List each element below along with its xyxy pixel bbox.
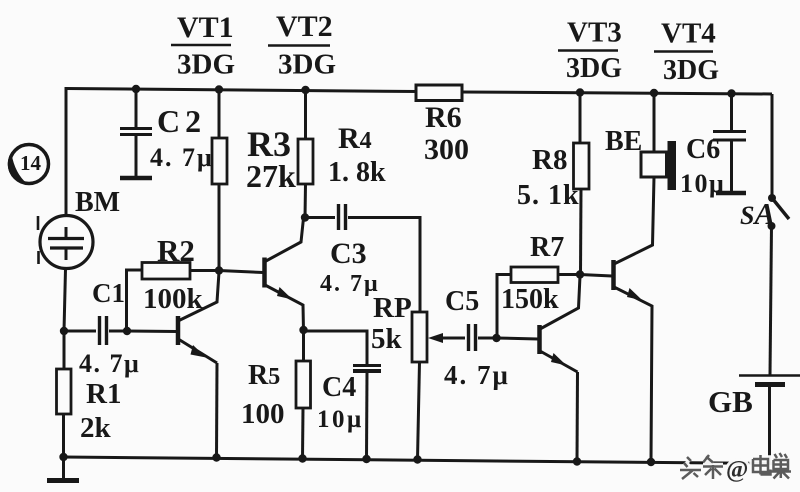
svg-text:4. 7μ: 4. 7μ	[150, 143, 214, 172]
svg-text:R7: R7	[530, 232, 564, 263]
junction RP bottom on ground rail	[413, 455, 421, 463]
resistor R8	[574, 93, 590, 275]
svg-text:C3: C3	[330, 237, 367, 270]
svg-text:VT4: VT4	[661, 18, 716, 50]
junction R8 top on power rail	[576, 88, 584, 96]
junction VT3 emitter on ground rail	[573, 457, 581, 465]
switch SA upper contact	[768, 194, 776, 202]
svg-text:3DG: 3DG	[566, 53, 622, 84]
svg-text:@: @	[726, 457, 748, 483]
svg-text:VT2: VT2	[276, 10, 333, 43]
svg-text:BE: BE	[605, 126, 642, 157]
wire VT1 collector node to VT2 base	[219, 271, 263, 273]
svg-text:C1: C1	[92, 278, 125, 308]
junction VT4 emitter on ground rail	[647, 458, 655, 466]
svg-text:R1: R1	[86, 378, 121, 410]
junction C2 top on power rail	[132, 85, 140, 93]
node VT2 collector / R4 / C3	[301, 213, 309, 221]
transistor VT1	[178, 272, 219, 458]
node R7 / R8 / VT3 collector / VT4 base	[576, 270, 584, 278]
capacitor C3	[305, 204, 420, 312]
junction R4 top on power rail	[301, 86, 309, 94]
earphone BE	[641, 93, 676, 190]
switch SA lower contact	[768, 222, 776, 230]
capacitor C6	[713, 94, 746, 194]
svg-text:3DG: 3DG	[663, 55, 719, 86]
svg-text:VT1: VT1	[177, 11, 234, 44]
junction C6 top on power rail	[727, 89, 735, 97]
resistor R2	[127, 263, 220, 332]
watermark toutiao at dianchao	[680, 453, 791, 483]
svg-text:300: 300	[424, 133, 469, 166]
resistor R5	[296, 330, 311, 459]
svg-text:3DG: 3DG	[177, 49, 235, 81]
potentiometer RP	[412, 312, 465, 460]
switch SA	[770, 94, 789, 375]
svg-text:10μ: 10μ	[680, 169, 725, 198]
label VT3 / 3DG	[558, 17, 622, 85]
label VT4 / 3DG	[654, 18, 719, 87]
label VT2 / 3DG	[268, 10, 336, 81]
wire C5 node to VT3 base	[497, 338, 539, 339]
svg-text:150k: 150k	[501, 284, 559, 315]
svg-text:4. 7μ: 4. 7μ	[444, 360, 510, 390]
microphone BM	[38, 216, 93, 269]
svg-text:3DG: 3DG	[278, 49, 336, 81]
wire top power rail left segment	[66, 89, 417, 92]
svg-text:14: 14	[20, 151, 42, 175]
junction R1 bottom on ground rail	[59, 453, 67, 461]
svg-text:2k: 2k	[80, 412, 112, 444]
battery GB	[739, 376, 800, 464]
junction VT1 emitter on ground rail	[212, 453, 220, 461]
svg-text:5. 1k: 5. 1k	[517, 180, 580, 211]
svg-text:1. 8k: 1. 8k	[328, 157, 386, 188]
resistor R6	[416, 85, 462, 101]
svg-text:27k: 27k	[246, 158, 296, 194]
node VT1 collector / R3 / R2 / VT2 base	[215, 266, 223, 274]
node BM / C1 / R1	[60, 327, 68, 335]
wire C1 node down to R1	[63, 331, 66, 369]
resistor R3	[212, 90, 227, 272]
svg-text:C2: C2	[157, 103, 206, 139]
svg-text:VT3: VT3	[567, 17, 622, 49]
svg-text:100: 100	[241, 398, 285, 430]
resistor R1	[57, 369, 72, 414]
svg-text:SA: SA	[740, 196, 775, 231]
capacitor C4	[304, 331, 382, 459]
junction C4 bottom on ground rail	[362, 455, 370, 463]
svg-text:R2: R2	[157, 233, 195, 268]
wire VT3 collector node to VT4 base	[580, 275, 612, 277]
svg-text:5k: 5k	[371, 323, 403, 355]
ground	[47, 457, 79, 481]
svg-text:4. 7μ: 4. 7μ	[79, 349, 140, 378]
capacitor C5	[469, 324, 497, 351]
svg-text:BM: BM	[75, 187, 120, 218]
capacitor C1	[64, 316, 127, 345]
svg-text:GB: GB	[708, 384, 753, 419]
node VT2 emitter / R5 / C4	[299, 326, 307, 334]
circled number 14	[8, 145, 48, 184]
transistor VT4	[614, 177, 655, 462]
label VT1 / 3DG	[171, 11, 235, 81]
junction BE top on power rail	[650, 89, 658, 97]
wire bottom ground rail	[64, 457, 773, 464]
node C1 / R2 / VT1 base	[123, 327, 131, 335]
junction R3 top on power rail	[215, 85, 223, 93]
wire top power rail right segment	[461, 92, 772, 94]
wire BM bottom to C1 node	[64, 269, 66, 331]
node C5 / R7 / VT3 base	[492, 334, 500, 342]
wire left rail top drop to BM	[65, 87, 68, 215]
svg-text:R8: R8	[532, 144, 567, 176]
wire R1 bottom to ground rail	[62, 414, 65, 457]
resistor R4	[298, 90, 313, 218]
svg-text:RP: RP	[373, 292, 412, 324]
transistor VT2	[265, 218, 304, 331]
svg-text:10μ: 10μ	[317, 406, 364, 433]
resistor R7	[497, 267, 580, 338]
junction R5 bottom on ground rail	[298, 454, 306, 462]
svg-text:C4: C4	[322, 372, 356, 403]
svg-text:100k: 100k	[143, 283, 204, 315]
svg-text:4. 7μ: 4. 7μ	[320, 271, 380, 297]
svg-text:C6: C6	[686, 134, 720, 165]
wire C1 node to VT1 base	[127, 330, 176, 334]
capacitor C2	[120, 89, 152, 178]
transistor VT3	[540, 276, 581, 462]
svg-text:R6: R6	[425, 101, 462, 134]
svg-text:C5: C5	[445, 286, 479, 317]
svg-text:R5: R5	[248, 360, 280, 391]
